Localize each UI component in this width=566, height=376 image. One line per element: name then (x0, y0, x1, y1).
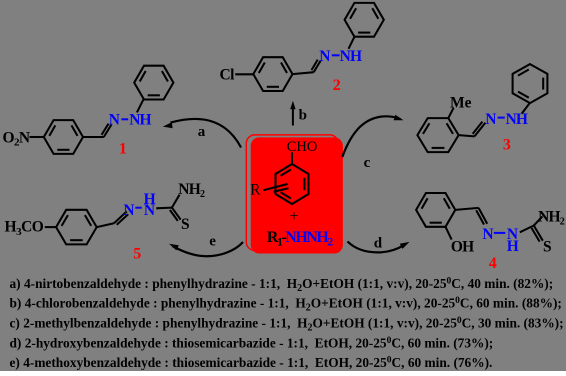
svg-text:a: a (198, 124, 206, 140)
svg-text:4: 4 (489, 255, 497, 272)
svg-text:Me: Me (450, 94, 472, 111)
svg-text:N: N (319, 48, 330, 65)
svg-text:S: S (181, 216, 190, 233)
svg-text:NH: NH (506, 111, 528, 128)
svg-text:5: 5 (133, 245, 141, 262)
svg-text:d: d (374, 235, 383, 251)
svg-text:1: 1 (119, 140, 127, 157)
svg-text:e) 4-methoxybenzaldehyde : thi: e) 4-methoxybenzaldehyde : thiosemicarba… (10, 355, 493, 370)
svg-text:OH: OH (451, 238, 474, 255)
svg-text:Cl: Cl (220, 67, 236, 84)
svg-text:e: e (209, 233, 216, 249)
svg-text:H: H (144, 191, 156, 208)
svg-text:NH: NH (340, 48, 362, 65)
svg-text:b: b (299, 108, 307, 124)
svg-text:N: N (482, 226, 493, 243)
svg-text:S: S (543, 239, 552, 256)
svg-text:+: + (289, 208, 298, 225)
svg-text:2: 2 (333, 77, 341, 94)
svg-text:c: c (364, 155, 371, 171)
svg-text:N: N (109, 112, 120, 129)
svg-text:3: 3 (503, 137, 511, 154)
svg-text:H: H (507, 238, 519, 255)
svg-text:R1-NHNH2: R1-NHNH2 (267, 229, 333, 249)
svg-text:H3CO: H3CO (5, 219, 44, 238)
svg-text:N: N (123, 202, 134, 219)
svg-text:d) 2-hydroxybenzaldehyde : thi: d) 2-hydroxybenzaldehyde : thiosemicarba… (10, 336, 494, 351)
svg-text:R: R (250, 181, 261, 198)
svg-text:N: N (485, 111, 496, 128)
svg-text:NH: NH (129, 112, 151, 129)
